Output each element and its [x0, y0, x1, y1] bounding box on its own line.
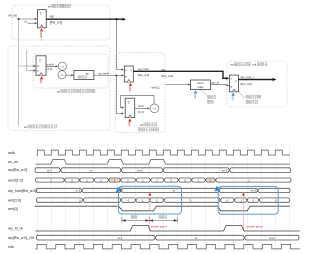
waveform bus wcnt — [36, 178, 292, 182]
flip-flop FF3 (wp_hold register) — [124, 66, 133, 82]
clock arrow rck (blue) under down edge box — [194, 90, 197, 93]
svg-text:2: 2 — [252, 199, 254, 203]
dashed box A: wr-side address counter — [12, 5, 110, 40]
dimension label 1 — [131, 216, 137, 219]
dashed box D: wr address passing period — [115, 53, 165, 133]
wire wrh[1] to down-edge detect — [165, 84, 189, 86]
svg-text:wr: wr — [57, 89, 60, 93]
blue highlight box 1 — [119, 186, 182, 214]
clock arrow rck (blue) under FF4 — [232, 93, 235, 96]
svg-text:wrh[1]: wrh[1] — [152, 86, 160, 90]
dashed box C: wr address stable period detect — [33, 54, 108, 88]
blue arrow at blue box 1 — [116, 187, 122, 193]
svg-text:rck: rck — [231, 96, 235, 100]
cloud +1 — [150, 104, 159, 113]
svg-text:3: 3 — [275, 199, 277, 203]
clock arrow wck (red) under FF5 — [128, 118, 131, 121]
svg-text:w-1: w-1 — [118, 236, 123, 240]
svg-text:wck: wck — [128, 87, 132, 92]
svg-text:[Rw_a:0]: [Rw_a:0] — [138, 73, 150, 77]
svg-text:wp_stble: wp_stble — [98, 71, 109, 75]
svg-text:wp_cmp_r: wp_cmp_r — [241, 75, 254, 79]
dimension arrowheads — [122, 219, 125, 221]
wire wr_en to FF1 — [17, 18, 36, 20]
svg-text:[Rw_a:0]: [Rw_a:0] — [162, 74, 174, 78]
dashed box F: wr-side address rck receiver — [227, 61, 287, 107]
svg-text:wp_ld_rk: wp_ld_rk — [8, 227, 23, 231]
leader line to register label — [238, 91, 246, 99]
svg-text:w+2: w+2 — [222, 168, 228, 172]
waveform wrh[1] — [35, 206, 291, 211]
svg-text:w: w — [173, 189, 176, 193]
svg-text:wrh[1:0]: wrh[1:0] — [8, 198, 21, 202]
svg-text:w-1: w-1 — [76, 189, 81, 193]
svg-text:wrh[1]: wrh[1] — [8, 207, 18, 211]
waveform wclk — [36, 150, 290, 155]
svg-text:w+2: w+2 — [251, 189, 257, 193]
svg-text:3: 3 — [79, 199, 81, 203]
svg-text:wp: wp — [86, 73, 90, 76]
svg-text:wr_en: wr_en — [8, 160, 18, 164]
dimension line — [122, 220, 178, 222]
node wr_en junction — [18, 18, 20, 20]
flip-flop FF4 (load register) — [229, 75, 238, 92]
waveform bus wp_cmp_r — [37, 235, 300, 240]
wire FF2 to comparator — [46, 65, 57, 67]
bold wire wp output of FF1 — [46, 18, 124, 20]
waveform rclk — [36, 244, 301, 249]
svg-text:strobe point: strobe point — [247, 225, 263, 229]
svg-text:0: 0 — [226, 199, 228, 203]
svg-text:[1:0]: [1:0] — [138, 110, 144, 114]
comparator circle == — [58, 71, 66, 79]
svg-text:wp[Rw_a:0]_r2k: wp[Rw_a:0]_r2k — [8, 236, 35, 240]
flip-flop FF1 (wr address counter) — [37, 10, 46, 28]
FF5 input wire (feedback) — [120, 96, 122, 108]
wire comparator to detect box — [66, 74, 72, 76]
wire wp_stble down to FF5 — [116, 76, 122, 114]
svg-text:+1: +1 — [153, 107, 157, 111]
detect box (match detect) — [74, 70, 94, 79]
flip-flop FF2 — [36, 56, 46, 76]
arrow wp end — [123, 18, 126, 21]
clock arrow wck (red) under FF3 — [129, 83, 132, 86]
red marker arrow 1 on wp_hold — [148, 193, 151, 196]
wire into FF2 input2 — [27, 50, 35, 71]
wire FF5 to +1 cloud — [135, 107, 149, 109]
flip-flop FF5 (wcnt counter) — [125, 98, 135, 117]
svg-text:wr: wr — [24, 125, 27, 129]
label falling edge detect (2 lines) — [208, 96, 217, 99]
svg-text:w: w — [195, 236, 198, 240]
comparator circle +1 — [58, 62, 66, 70]
svg-text:edge: edge — [198, 85, 204, 89]
svg-text:rclk: rclk — [8, 245, 14, 249]
svg-text:1: 1 — [240, 199, 242, 203]
dashed box B: wr address passing function — [8, 46, 110, 131]
waveform bus wp — [35, 168, 291, 173]
waveform wp_ld — [36, 226, 301, 232]
svg-text:wp: wp — [50, 14, 54, 18]
svg-text:strobe point: strobe point — [151, 225, 167, 229]
feedback wire — [120, 96, 154, 104]
svg-text:1: 1 — [142, 199, 144, 203]
label load register (2 lines) — [246, 95, 261, 98]
leader line to down edge label — [201, 90, 208, 95]
svg-text:wp_hold[Rw_a:0]: wp_hold[Rw_a:0] — [8, 189, 36, 193]
svg-text:wck: wck — [127, 122, 131, 127]
svg-text:wr: wr — [231, 63, 234, 67]
timing grid — [37, 144, 289, 252]
wire wp vertical to FF3 — [117, 19, 123, 69]
wire wp_stble — [94, 75, 123, 77]
red strobe line 2 — [243, 196, 245, 232]
wire wp_ld to FF4 — [211, 84, 228, 87]
svg-text:wp_hold: wp_hold — [138, 67, 149, 71]
svg-text:+1: +1 — [61, 65, 65, 69]
svg-text:w+1: w+1 — [137, 168, 143, 172]
wire second input FF1 — [28, 22, 36, 24]
blue highlight box 2 — [218, 186, 278, 214]
clock arrow wck (red) under FF2 — [40, 76, 43, 79]
dimension label 2 — [159, 216, 167, 219]
svg-text:wcnt: wcnt — [138, 104, 144, 108]
waveform bus wp_hold — [37, 188, 291, 192]
svg-text:wp[Rw_a:0]: wp[Rw_a:0] — [8, 168, 27, 172]
svg-text:wr: wr — [140, 123, 143, 127]
svg-text:/w: /w — [24, 19, 28, 23]
dimension ticks — [122, 217, 178, 222]
svg-text:[Rw_a:0]: [Rw_a:0] — [50, 21, 63, 25]
svg-text:wcnt[1:0]: wcnt[1:0] — [8, 178, 23, 182]
svg-text:[Rw_a:0]: [Rw_a:0] — [241, 82, 253, 86]
bold wire wp_hold to FF4 — [133, 71, 227, 78]
svg-text:wclk: wclk — [8, 151, 15, 155]
svg-text:wck: wck — [39, 79, 43, 84]
waveform wr_en — [36, 160, 291, 165]
bold wire wp_cmp_r output — [238, 79, 273, 81]
blue arrow at blue box 2 — [215, 186, 221, 192]
svg-text:wp: wp — [162, 67, 166, 71]
node wp junction — [115, 18, 117, 20]
wire wr_en vertical — [18, 19, 20, 126]
svg-text:wck: wck — [39, 33, 43, 38]
wire into FF2 input1 — [19, 65, 35, 67]
svg-text:w-1: w-1 — [47, 168, 52, 172]
svg-text:0: 0 — [128, 199, 130, 203]
orange highlight segment 2 on wcnt — [207, 178, 215, 181]
svg-text:w+2: w+2 — [269, 236, 275, 240]
svg-text:2: 2 — [156, 199, 158, 203]
svg-text:rck: rck — [252, 63, 256, 67]
svg-text:wr_en: wr_en — [8, 14, 17, 18]
clock arrow wck (red) under FF1 — [40, 28, 43, 31]
svg-text:w: w — [90, 168, 93, 172]
svg-text:down: down — [197, 81, 204, 85]
svg-text:==: == — [60, 73, 64, 77]
svg-text:[1:0]: [1:0] — [47, 67, 53, 71]
red marker arrow 2 on wp_hold — [242, 192, 245, 195]
red strobe line 1 (dimension middle tick) — [148, 216, 150, 232]
node wp_stble junction — [116, 75, 118, 77]
svg-text:wr: wr — [48, 4, 51, 8]
svg-text:rck: rck — [193, 94, 197, 98]
waveform bus wrh — [37, 198, 290, 202]
red marker line 1 lower — [149, 196, 151, 212]
orange highlight segment 1 on wcnt — [110, 178, 119, 181]
svg-text:wp_ld: wp_ld — [212, 80, 220, 84]
down edge detect box — [191, 80, 211, 90]
svg-text:3: 3 — [189, 199, 191, 203]
